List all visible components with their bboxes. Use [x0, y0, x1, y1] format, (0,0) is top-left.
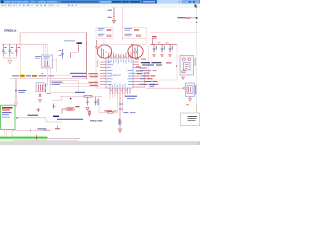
junction	[154, 44, 155, 45]
node +3V3 label	[64, 40, 75, 41]
title bar	[0, 0, 200, 4]
bus outline group A	[96, 27, 113, 38]
power flag inside circle A	[95, 40, 106, 58]
capacitor C10	[153, 45, 157, 57]
wire arrow	[16, 117, 19, 119]
net label above wire	[28, 115, 39, 116]
highlighted net green glow	[0, 136, 48, 142]
caption SWD bottom	[53, 116, 83, 120]
IC U3 name	[111, 75, 121, 77]
power flag VDD mid	[70, 45, 79, 59]
wire drop group A	[103, 39, 105, 45]
wire vertical right of IC	[148, 45, 150, 80]
IC top pin numbers	[109, 55, 130, 58]
resistor R3	[125, 28, 139, 30]
sheet box labels	[52, 82, 63, 85]
toolbar icons middle	[68, 5, 70, 7]
oscillator U4	[180, 56, 196, 80]
op IC U3 body	[106, 58, 133, 88]
wire long vertical to circle B	[121, 7, 123, 41]
IC top pins	[109, 53, 132, 59]
wires below IC	[110, 94, 125, 129]
wire junction down	[46, 118, 62, 122]
wire VDD rail top-left	[20, 32, 87, 34]
toolbar	[0, 4, 200, 8]
annotation circle A	[97, 45, 111, 58]
crystal load caps	[36, 83, 51, 103]
capacitor C4	[59, 49, 64, 59]
wire cap bottom rail	[3, 56, 16, 61]
highlight match 1	[20, 74, 25, 77]
wire osc row	[10, 77, 87, 79]
right caps rail	[150, 44, 177, 46]
IC bottom pins	[110, 88, 130, 94]
crystal Y1 branch	[14, 79, 26, 106]
sheet box SWD	[50, 81, 79, 93]
power label VDD right	[152, 36, 157, 45]
caption STM32 JTAG	[90, 119, 103, 122]
capacitor C1	[2, 44, 7, 56]
IC right pins with wires	[133, 62, 152, 87]
IC top pin labels	[108, 59, 131, 63]
capacitor C11	[161, 45, 165, 57]
app icon	[1, 1, 3, 3]
wire	[19, 33, 21, 45]
IC bottom inner labels	[110, 84, 126, 88]
power net VDD top arrow	[108, 7, 116, 23]
wire lower left pins	[55, 84, 100, 87]
wire osc net down at x20	[20, 33, 22, 79]
resistor R1	[98, 28, 111, 30]
eco note	[125, 96, 137, 97]
sheet net line top right	[150, 32, 199, 34]
net label OSC32 blue pair	[70, 73, 86, 77]
svg-text:STM32L1x: STM32L1x	[4, 29, 17, 32]
title light segment	[157, 0, 182, 4]
diode D1	[37, 109, 41, 112]
caption STM32L1x top-left	[4, 29, 17, 32]
bottom-left net row	[12, 126, 60, 137]
IC left pins	[100, 62, 106, 84]
resistor R7 row	[99, 96, 123, 113]
resistor R4	[125, 34, 141, 37]
resistor R8 vertical	[89, 110, 91, 117]
status bar	[0, 142, 200, 145]
title block	[180, 113, 199, 126]
capacitor C2	[9, 44, 14, 56]
title text	[5, 1, 11, 2]
capacitor C9	[94, 97, 98, 106]
fuse F1 top right	[178, 17, 198, 23]
note text block	[140, 62, 177, 88]
right wire net labels blue	[136, 70, 151, 84]
IC left inner labels	[107, 62, 113, 85]
toolbar icons left	[2, 5, 4, 7]
capacitor C12	[169, 45, 173, 57]
wire bus vertical	[86, 33, 88, 79]
pins inside circle B	[131, 44, 138, 58]
highlight match 2	[32, 75, 38, 78]
window buttons	[182, 0, 200, 4]
capacitor C8	[86, 97, 89, 110]
capacitor C3	[15, 44, 20, 56]
svg-text:STM32L152: STM32L152	[111, 75, 121, 77]
selected component green box	[1, 105, 15, 129]
connector J2	[118, 112, 135, 132]
vertical label left of IC	[96, 60, 99, 67]
wire drop group B	[145, 39, 147, 45]
IC right inner labels	[128, 70, 133, 85]
ground	[8, 61, 12, 64]
annotation circle B	[128, 45, 143, 58]
wire stubs below green box	[5, 129, 7, 137]
highlighted net green	[0, 135, 80, 141]
regulator U2 box	[35, 44, 57, 78]
wire pink rail over circles	[96, 43, 146, 45]
wire cap rail left	[1, 43, 48, 45]
wire right drop	[150, 45, 177, 80]
right wire net labels	[144, 73, 159, 85]
IC left pin net labels	[89, 73, 99, 86]
net waypoint pill	[52, 104, 80, 114]
IC bottom pin numbers	[111, 89, 127, 92]
crystal Y2 right	[146, 83, 197, 113]
wire from green box	[15, 117, 46, 119]
wire osc row 2	[50, 74, 100, 76]
window background	[0, 0, 200, 145]
bus outline group B	[122, 27, 147, 38]
ferrite bead L1 row	[52, 92, 102, 100]
wire left of IC	[96, 49, 106, 89]
wire drops	[48, 78, 51, 84]
sheet right border	[196, 8, 198, 113]
mouse cursor	[195, 4, 198, 8]
net stubs upper right of IC	[135, 59, 146, 68]
resistor R2	[98, 34, 111, 37]
title highlight box	[142, 0, 158, 3]
net label row with search highlight	[12, 73, 54, 77]
